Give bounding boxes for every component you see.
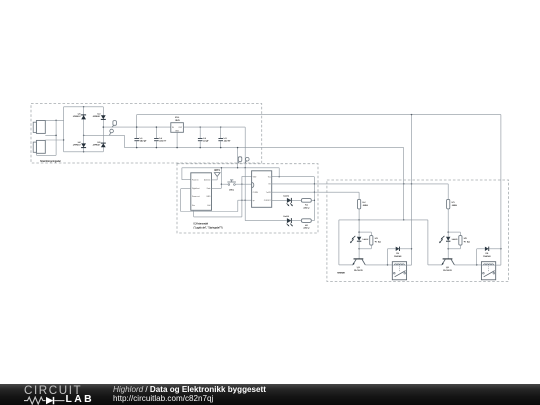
wire node bus x314 (314, 177, 315, 221)
wire R3 feed corner (358, 192, 360, 199)
svg-text:LED3: LED3 (363, 239, 369, 241)
junction SW right (241, 183, 242, 184)
wire +V drop x411 to relay1 (411, 115, 412, 266)
LED LED1 (283, 196, 293, 207)
wire rectified + (to VR1 IN) (103, 126, 171, 128)
svg-text:R6: R6 (464, 238, 468, 240)
diode D1 1N4007 (73, 113, 86, 119)
wire VCC corner x279 (278, 168, 279, 178)
label Strømforsyningsdel (40, 160, 61, 163)
svg-text:CLKOUT: CLKOUT (264, 200, 271, 202)
svg-text:Q2: Q2 (446, 267, 450, 269)
svg-text:Strømforsyningsdel: Strømforsyningsdel (40, 160, 61, 163)
label Relédel (337, 272, 345, 274)
wire LED1 to R1 (292, 199, 302, 201)
svg-text:Vdd: Vdd (207, 205, 210, 207)
wire Q1 collector (365, 264, 392, 265)
logic section box (IC/Antennedel) (177, 164, 318, 233)
svg-text:47 kΩ: 47 kΩ (464, 241, 470, 243)
wire VR1 OUT +5V (183, 126, 245, 128)
diode D6 1N4148 (477, 247, 501, 265)
svg-text:R4: R4 (375, 238, 379, 240)
svg-text:LED4: LED4 (452, 239, 458, 241)
CircuitLab logo text LAB (66, 394, 95, 405)
svg-text:R5: R5 (452, 202, 456, 204)
svg-text:Vss: Vss (192, 205, 195, 207)
junction y200 row (241, 199, 246, 200)
svg-text:Data: Data (207, 187, 211, 190)
wire node A (emitter rail) (339, 219, 428, 220)
resistor R2 330 (301, 219, 311, 230)
svg-text:Digital out: Digital out (192, 187, 200, 190)
capacitor C4 100 nF (218, 126, 231, 148)
resistor R3 10k / photodiode LED3 / resistor R4 / transistor Q1 assembly (350, 199, 381, 272)
label IC/Antennedel (194, 223, 223, 230)
wire bridge left column (83, 107, 85, 152)
capacitor C3 10 µF (198, 126, 210, 148)
connector J2 (33, 140, 45, 153)
svg-text:Power out: Power out (192, 195, 200, 198)
wire top +V rail (137, 114, 501, 116)
svg-text:BC547B: BC547B (354, 270, 363, 272)
diode D4 1N4007 (93, 142, 106, 148)
svg-text:GND: GND (207, 196, 212, 198)
svg-text:10 µF: 10 µF (203, 141, 209, 143)
svg-text:330 Ω: 330 Ω (303, 228, 309, 230)
wire IC2 out2 (to relay1 base resistor) (272, 191, 359, 193)
node flag VPLUS (112, 121, 116, 128)
wire bridge bottom line (64, 151, 104, 152)
svg-text:R2: R2 (305, 225, 309, 227)
svg-text:C1: C1 (140, 138, 144, 140)
wire relay1 to +V (407, 264, 412, 266)
svg-text:1N4148: 1N4148 (483, 256, 491, 258)
svg-text:680 µF: 680 µF (140, 141, 148, 143)
wire bridge right column (102, 107, 104, 152)
svg-text:D2: D2 (78, 142, 82, 144)
relay RLY2 (481, 262, 495, 280)
wire SW feed (221, 183, 228, 185)
svg-text:VDD: VDD (253, 176, 257, 178)
svg-text:BC547B: BC547B (443, 270, 452, 272)
wire R2 to bus (311, 220, 314, 222)
wire J2 top pin (45, 139, 63, 141)
svg-text:D3: D3 (98, 113, 102, 115)
capacitor C2 100 nF (154, 126, 167, 148)
diode D2 1N4007 (73, 142, 86, 148)
svg-text:C4: C4 (224, 138, 228, 140)
wire relay2 to +V (496, 264, 501, 266)
svg-text:Q1: Q1 (357, 267, 361, 269)
svg-text:1N4007: 1N4007 (93, 144, 102, 146)
svg-text:C3: C3 (203, 138, 207, 140)
svg-text:10kΩ: 10kΩ (452, 205, 458, 207)
diode D3 1N4007 (93, 113, 106, 119)
schematic url line (113, 394, 213, 403)
svg-text:np: np (253, 200, 255, 202)
svg-text:OUT: OUT (179, 127, 183, 129)
svg-text:Antenne: Antenne (204, 178, 210, 181)
wire IC2 out1 (to relay2 base resistor) (272, 183, 449, 184)
node flag +5V (245, 157, 249, 163)
wire J2 bottom hook (37, 153, 57, 155)
wire IC2 pin to LED1 (272, 199, 287, 201)
svg-text:1N4007: 1N4007 (93, 116, 102, 118)
svg-text:R3: R3 (363, 202, 367, 204)
svg-text:SW1: SW1 (229, 189, 235, 191)
relay RLY1 (392, 262, 406, 280)
wire J1 top pin (45, 120, 63, 121)
antenna ANT1 (212, 169, 221, 180)
svg-text:ANT1: ANT1 (214, 169, 221, 172)
svg-text:1N4007: 1N4007 (73, 144, 82, 146)
svg-text:LED2: LED2 (283, 216, 289, 218)
svg-text:100 nF: 100 nF (159, 141, 167, 143)
switch SW1 (227, 180, 236, 191)
IC U1 (radio IC) (191, 173, 212, 211)
capacitor C1 680 µF (134, 126, 147, 148)
wire GND drop x237 (237, 147, 238, 168)
svg-text:Relédel: Relédel (337, 272, 345, 274)
svg-text:1N4148: 1N4148 (394, 256, 402, 258)
svg-text:D4: D4 (98, 142, 102, 144)
svg-text:D6: D6 (485, 253, 489, 255)
connector J1 (33, 121, 45, 134)
wire IC1 pin2-left loop (181, 189, 252, 212)
svg-text:1N4007: 1N4007 (73, 116, 82, 118)
wire R1 to bus (311, 199, 314, 201)
junction right column/+ wire (103, 126, 104, 127)
svg-text:Vss: Vss (268, 176, 271, 178)
svg-text:LED1: LED1 (283, 196, 289, 198)
wire J1 bottom pin (45, 135, 57, 136)
wire AC2 drop (124, 135, 126, 147)
schematic title line (113, 385, 266, 394)
IC U2 (driver IC) (252, 171, 272, 208)
wire R5 feed corner (447, 184, 449, 200)
wire VR1 GND lead (176, 132, 177, 148)
resistor R1 330 (301, 199, 311, 210)
wire IC1 bottom loop (194, 176, 252, 217)
svg-text:IC/Antennedel: IC/Antennedel (194, 223, 209, 226)
wire LED2 to R2 (292, 220, 302, 222)
LED LED2 (283, 216, 293, 227)
svg-text:7805: 7805 (175, 120, 181, 122)
wire IC2 pin VDD row (272, 176, 315, 178)
svg-text:100 nF: 100 nF (224, 141, 232, 143)
svg-text:47 kΩ: 47 kΩ (375, 241, 381, 243)
node flag ACN (110, 129, 114, 135)
svg-text:R1: R1 (305, 205, 309, 207)
svg-text:C2: C2 (159, 138, 163, 140)
diode D5 1N4148 (388, 247, 412, 265)
junction top rail/left column (83, 106, 84, 107)
svg-text:D1: D1 (78, 113, 82, 115)
svg-text:("Logisk del", "Styringsdel"?): ("Logisk del", "Styringsdel"?) (194, 226, 223, 229)
svg-text:VR1: VR1 (175, 117, 180, 119)
svg-text:B1: B1 (269, 184, 271, 186)
wire +5 to LED2 (245, 168, 287, 221)
wire AC2 to ground rail (83, 135, 125, 136)
wire VCC to IC1 pin1 (182, 168, 191, 180)
wire vertical x63 (top rail riser) (63, 107, 64, 152)
svg-text:Tx-RX: Tx-RX (266, 192, 272, 194)
voltage regulator VR1 7805 (171, 117, 184, 133)
power supply section box (Strømforsyningsdel) (31, 104, 262, 164)
wire vertical x56 (windings series link) (55, 120, 57, 155)
wire Q2 collector (454, 264, 481, 265)
svg-text:330 Ω: 330 Ω (303, 207, 309, 209)
relay section box (Relédel) (327, 180, 509, 282)
svg-text:Power in: Power in (192, 178, 199, 181)
wire +V riser at C1 (136, 115, 138, 128)
svg-text:IN: IN (172, 127, 174, 129)
svg-text:D5: D5 (396, 253, 400, 255)
wire ground rail drop x404 (403, 148, 404, 221)
node flag GND5 (238, 157, 242, 164)
CircuitLab logo text CIRCUIT (24, 384, 82, 397)
junction top rail / relay1 branch (411, 114, 412, 115)
wire bridge top rail (64, 106, 104, 108)
svg-text:10kΩ: 10kΩ (363, 205, 369, 207)
wire SW1 to IC2 (235, 183, 251, 185)
CircuitLab logo resistor and diode glyph (24, 396, 66, 405)
wire IC1 pin2-right (212, 167, 223, 188)
wire +5V drop x245 (244, 127, 246, 168)
wire +V drop x501 to relay2 (500, 115, 501, 266)
wire ground rail (125, 147, 404, 149)
wire VCC y168 (182, 167, 279, 168)
svg-text:CLKIN: CLKIN (253, 192, 259, 194)
resistor R5 10k / photodiode LED4 / resistor R6 / transistor Q2 assembly (439, 199, 470, 272)
wire Q1 emitter loop (339, 220, 353, 265)
wire Q2 emitter loop (428, 220, 442, 265)
